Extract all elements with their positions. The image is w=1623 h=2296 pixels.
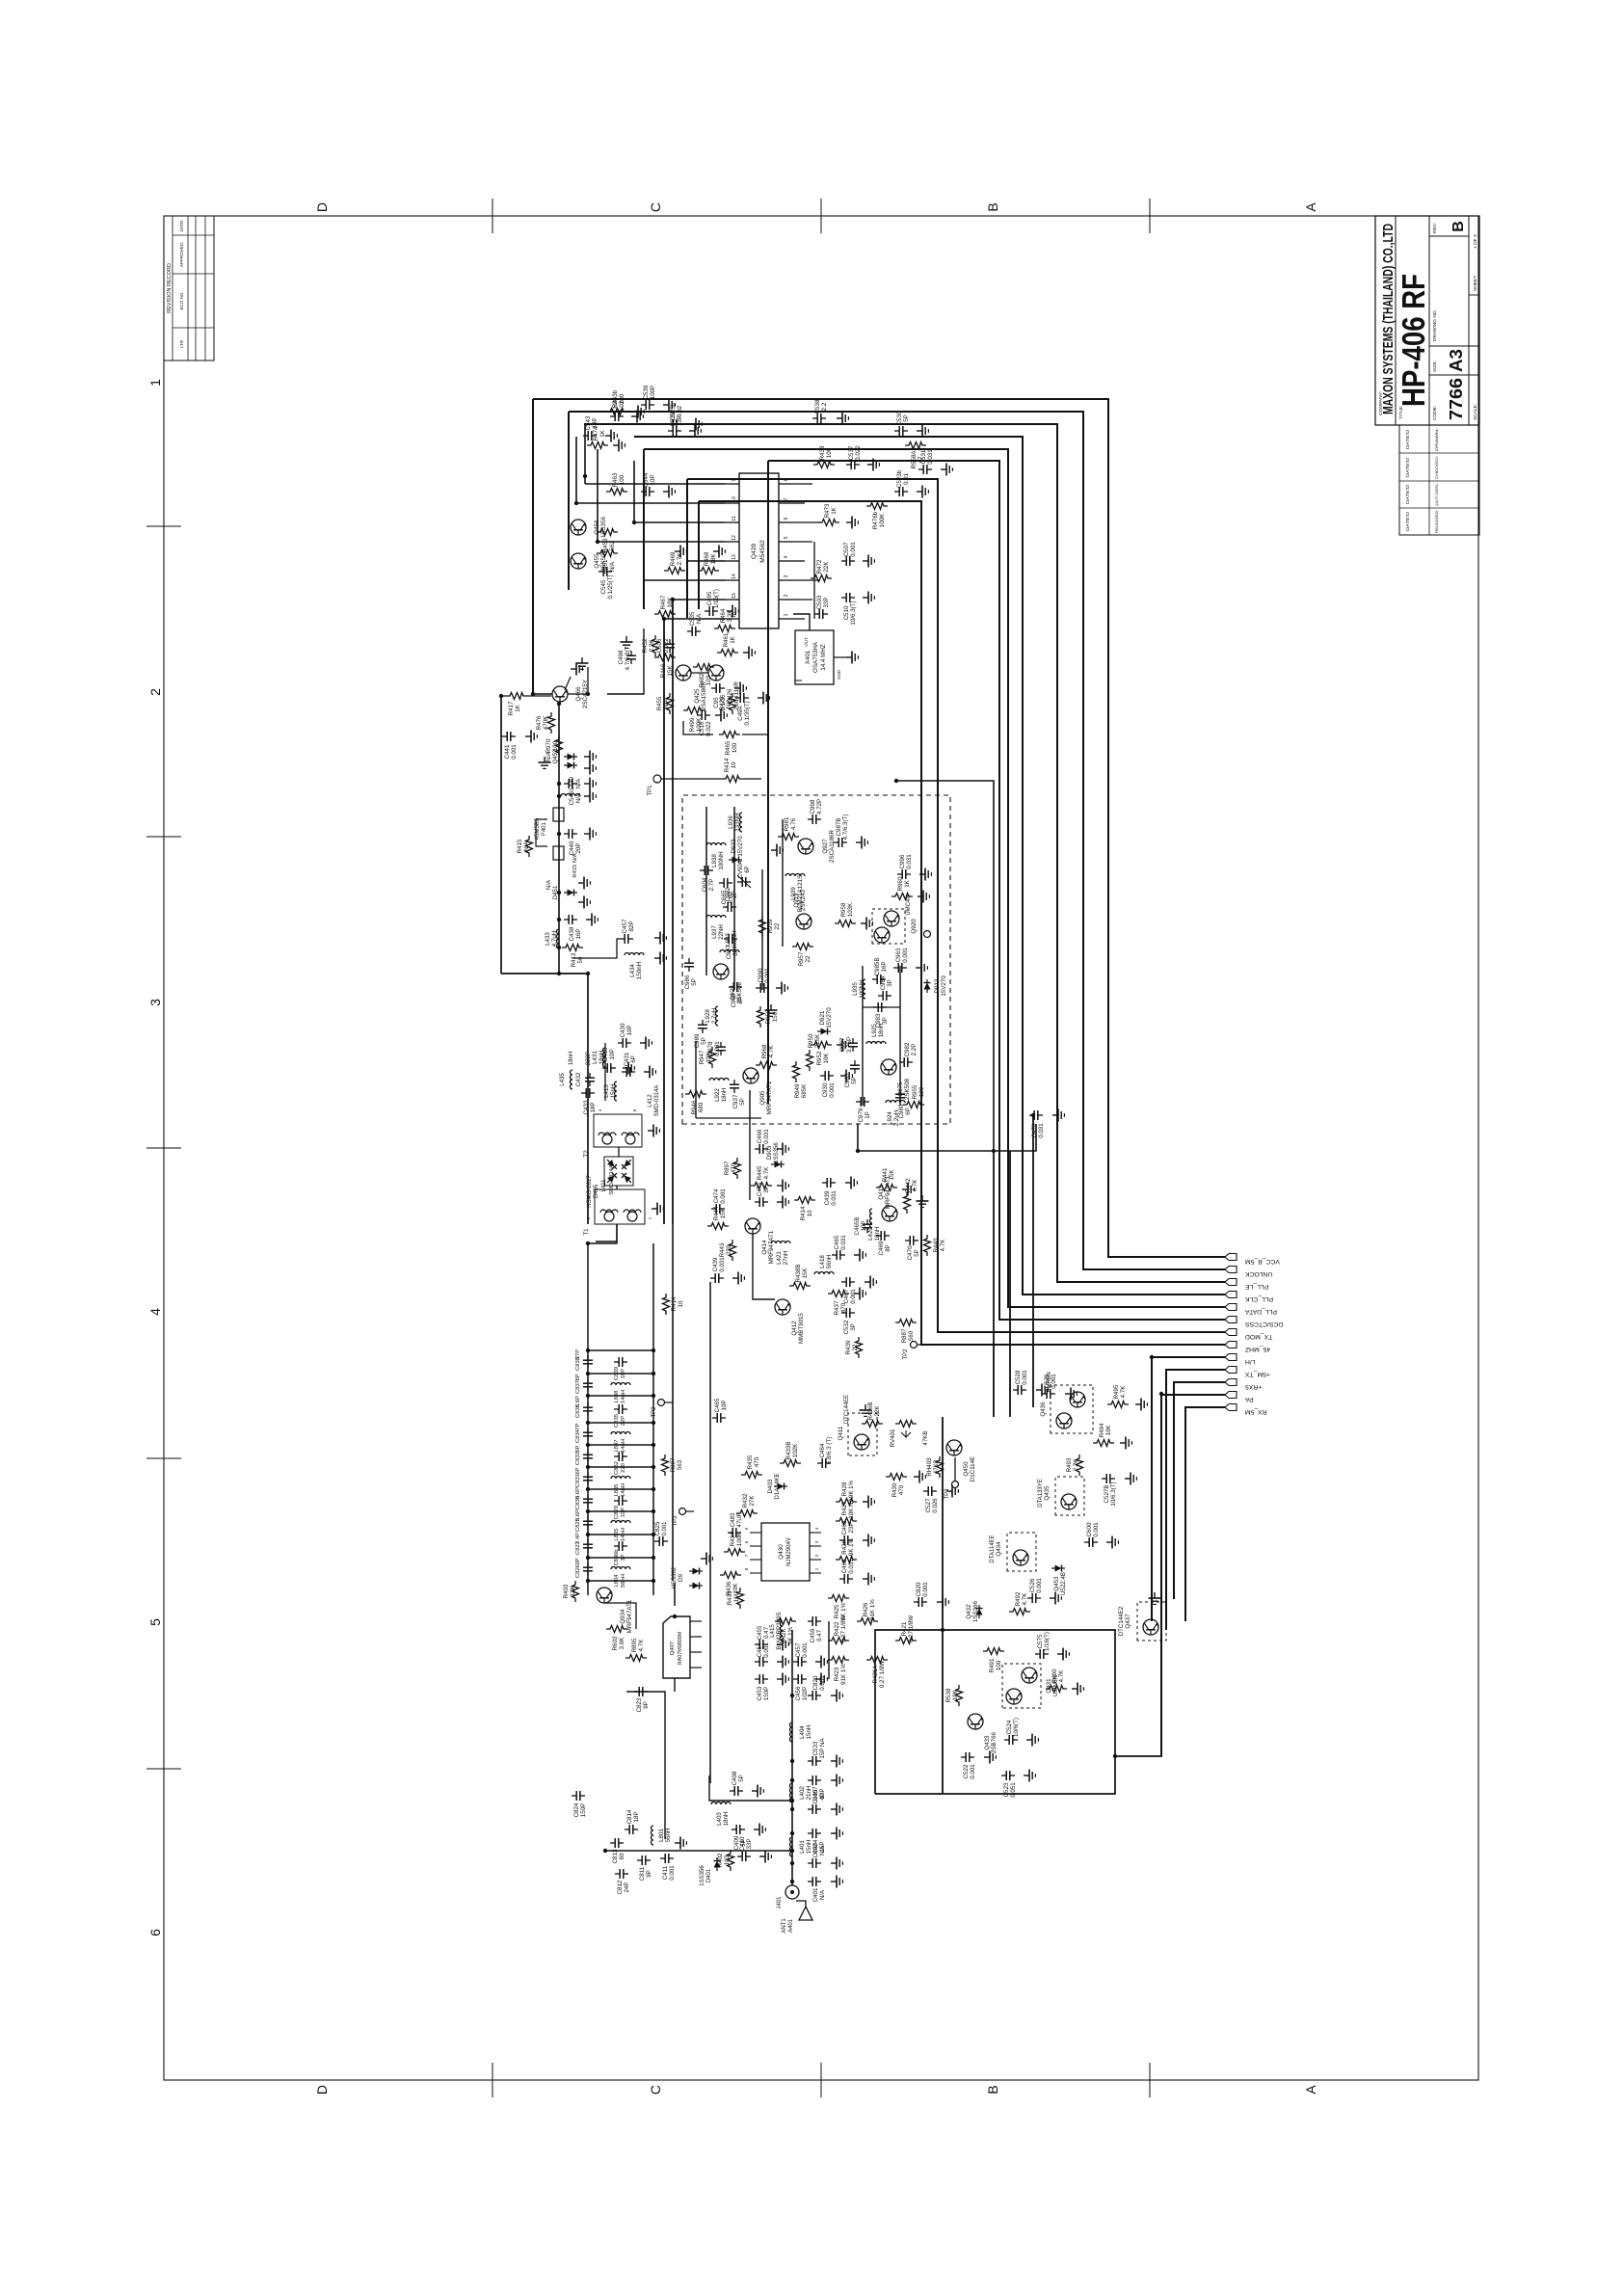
svg-text:C544: C544 bbox=[643, 472, 650, 487]
svg-text:L838: L838 bbox=[614, 1391, 620, 1403]
net flag PLL_DATA bbox=[1225, 1304, 1237, 1311]
capacitor C478 bbox=[1029, 1110, 1045, 1138]
connector J401 bbox=[777, 1885, 799, 1909]
svg-text:C404: C404 bbox=[812, 1839, 819, 1854]
op-amp Q430 NJM2904V bbox=[744, 1523, 821, 1581]
ground bbox=[732, 1272, 744, 1285]
ground bbox=[863, 592, 874, 604]
ground bbox=[984, 1751, 996, 1764]
svg-text:0.031: 0.031 bbox=[906, 854, 913, 869]
svg-text:27P: 27P bbox=[575, 1349, 581, 1359]
svg-text:C433: C433 bbox=[583, 1100, 590, 1114]
svg-text:R438: R438 bbox=[819, 445, 826, 460]
transformer T1 L411 SMD-0314A bbox=[584, 1164, 652, 1235]
svg-text:N/A: N/A bbox=[523, 841, 530, 851]
svg-text:47UF: 47UF bbox=[736, 1512, 743, 1527]
svg-text:R466: R466 bbox=[660, 663, 667, 678]
ground bbox=[586, 914, 598, 926]
diode Q432 bbox=[966, 1600, 983, 1622]
ground bbox=[765, 1004, 778, 1016]
capacitor C527 bbox=[923, 1486, 939, 1513]
wire q414 chain bbox=[753, 1234, 775, 1299]
ground bbox=[916, 962, 927, 974]
transistor Q425 bbox=[676, 665, 707, 710]
transistor bbox=[854, 1434, 869, 1450]
resistor R476b bbox=[866, 503, 888, 530]
ground bbox=[584, 828, 596, 841]
svg-text:470: 470 bbox=[754, 1456, 760, 1467]
resistor R495 bbox=[1107, 1384, 1129, 1407]
svg-text:R435: R435 bbox=[747, 1455, 754, 1469]
resistor R438B bbox=[789, 1265, 811, 1290]
svg-text:56nH: 56nH bbox=[621, 1574, 626, 1588]
IC U428 M54562 bbox=[725, 473, 793, 628]
inductor L420 bbox=[867, 1209, 881, 1241]
svg-text:C820: C820 bbox=[916, 1582, 922, 1596]
svg-text:14.4 MHZ: 14.4 MHZ bbox=[820, 644, 827, 670]
transistor Q456 bbox=[571, 516, 607, 538]
filter F401b bbox=[553, 846, 564, 860]
svg-text:C985: C985 bbox=[844, 1073, 851, 1087]
svg-text:5P: 5P bbox=[903, 414, 910, 422]
svg-text:10P: 10P bbox=[609, 1049, 616, 1059]
svg-text:R482: R482 bbox=[699, 673, 705, 687]
capacitor C402 bbox=[808, 1843, 826, 1868]
wire IC pin lead bbox=[687, 560, 725, 562]
resistor R469 bbox=[664, 551, 685, 574]
capacitor C835 bbox=[614, 1404, 627, 1414]
svg-text:DCS/CTCSS: DCS/CTCSS bbox=[1245, 1321, 1284, 1327]
svg-text:11: 11 bbox=[732, 516, 737, 521]
revision record table bbox=[164, 216, 214, 360]
resistor R425 bbox=[828, 1595, 849, 1621]
svg-text:56nH: 56nH bbox=[665, 1829, 672, 1843]
filter ladder rung wire bbox=[588, 1466, 653, 1468]
ground bbox=[752, 1785, 763, 1798]
ground bbox=[623, 1062, 634, 1075]
diode D923 bbox=[729, 836, 744, 864]
svg-text:Q452: Q452 bbox=[553, 749, 559, 763]
capacitor C462 bbox=[839, 1520, 855, 1545]
capacitor C401 bbox=[808, 1877, 826, 1902]
resistor R970 bbox=[545, 735, 563, 757]
svg-text:5P: 5P bbox=[851, 1077, 858, 1084]
svg-text:0.1/35: 0.1/35 bbox=[720, 694, 727, 711]
svg-text:C963: C963 bbox=[895, 948, 902, 962]
wire PA in bbox=[674, 1678, 676, 1692]
wire TP1 lead bbox=[661, 778, 722, 780]
capacitor C506 bbox=[656, 638, 675, 654]
svg-text:4: 4 bbox=[784, 555, 789, 558]
svg-text:33P: 33P bbox=[823, 597, 830, 607]
svg-text:15V270: 15V270 bbox=[826, 1007, 833, 1028]
svg-text:C820: C820 bbox=[812, 1675, 819, 1690]
wire IC pin lead bottom bbox=[793, 521, 820, 523]
wire bus net VCC_B_5M bbox=[533, 399, 1225, 1257]
svg-text:TP3: TP3 bbox=[945, 1488, 950, 1500]
svg-text:C503: C503 bbox=[816, 595, 823, 609]
ground bbox=[917, 1195, 929, 1207]
ground bbox=[863, 555, 874, 568]
svg-text:91K 1%: 91K 1% bbox=[840, 1664, 847, 1685]
svg-text:L418: L418 bbox=[819, 1255, 826, 1268]
capacitor C455 bbox=[755, 1625, 770, 1649]
svg-text:22K: 22K bbox=[823, 561, 830, 573]
svg-text:3P: 3P bbox=[737, 997, 744, 1004]
svg-text:L938: L938 bbox=[711, 854, 718, 868]
capacitor C982 bbox=[899, 1042, 918, 1067]
capacitor C465 bbox=[832, 1235, 847, 1260]
svg-text:C527: C527 bbox=[925, 1498, 932, 1512]
svg-text:R467: R467 bbox=[660, 595, 667, 609]
svg-text:2SK508: 2SK508 bbox=[904, 1078, 911, 1100]
filter ladder rung wire bbox=[588, 1580, 653, 1582]
svg-text:4: 4 bbox=[147, 1308, 163, 1316]
svg-text:SHEET:: SHEET: bbox=[1473, 275, 1478, 291]
svg-text:9K 1%: 9K 1% bbox=[848, 1480, 855, 1498]
svg-text:2.7P: 2.7P bbox=[708, 879, 715, 892]
wire Q466 emitter bbox=[568, 667, 588, 694]
svg-text:C833: C833 bbox=[575, 1452, 581, 1465]
transistor Q466 bbox=[552, 680, 589, 708]
svg-text:22P: 22P bbox=[621, 1416, 626, 1426]
svg-text:100K: 100K bbox=[696, 717, 703, 732]
svg-text:L937: L937 bbox=[711, 925, 718, 939]
svg-text:PLL_LE: PLL_LE bbox=[1245, 1283, 1269, 1290]
resistor R440 bbox=[924, 1235, 947, 1256]
svg-text:L435: L435 bbox=[560, 1073, 566, 1086]
resistor R463 bbox=[606, 472, 627, 494]
capacitor C523 bbox=[1001, 1771, 1017, 1798]
svg-text:18P: 18P bbox=[590, 1102, 597, 1112]
resistor R455 bbox=[656, 693, 674, 714]
trimmer CV904 6P bbox=[737, 860, 751, 888]
svg-text:0.031: 0.031 bbox=[719, 1257, 726, 1272]
svg-text:R464: R464 bbox=[720, 608, 727, 623]
svg-text:0.022: 0.022 bbox=[855, 445, 862, 461]
svg-text:R445: R445 bbox=[757, 1165, 763, 1180]
capacitor C963 bbox=[893, 948, 909, 973]
wire bus net PLL_LE bbox=[584, 424, 1225, 1282]
capacitor C524 bbox=[1004, 1718, 1020, 1745]
svg-text:R426: R426 bbox=[863, 1602, 869, 1616]
svg-text:R455: R455 bbox=[656, 696, 663, 710]
svg-text:R476: R476 bbox=[536, 715, 543, 730]
capacitor C531 bbox=[918, 449, 934, 474]
wire VCXO rail bbox=[607, 628, 644, 694]
svg-text:R493: R493 bbox=[1066, 1457, 1073, 1472]
ground bbox=[831, 1876, 842, 1888]
capacitor C544 bbox=[641, 472, 656, 496]
capacitor C836 bbox=[583, 1402, 593, 1416]
ground bbox=[831, 1755, 842, 1768]
svg-text:RH403: RH403 bbox=[926, 1457, 933, 1477]
ground bbox=[917, 486, 928, 498]
resistor R427 bbox=[836, 1497, 857, 1524]
svg-text:470: 470 bbox=[731, 1162, 737, 1173]
zone tick right border bbox=[1149, 199, 1151, 233]
net flag RX_5M bbox=[1225, 1404, 1237, 1411]
resistor R463b bbox=[606, 389, 627, 414]
svg-text:3P: 3P bbox=[850, 1323, 857, 1331]
svg-text:T1: T1 bbox=[584, 1228, 590, 1236]
svg-text:R957: R957 bbox=[798, 951, 805, 966]
svg-text:4.7K: 4.7K bbox=[1058, 1669, 1065, 1683]
VCO output port bbox=[924, 931, 931, 938]
ground bbox=[815, 1673, 827, 1686]
svg-text:OUT: OUT bbox=[804, 637, 809, 647]
resistor R435 bbox=[741, 1455, 762, 1478]
resistor R897 bbox=[724, 1158, 741, 1179]
resistor R955 bbox=[903, 1084, 925, 1108]
inductor L404 bbox=[790, 1722, 813, 1742]
svg-text:0.001: 0.001 bbox=[802, 1642, 809, 1658]
capacitor C979 bbox=[856, 1097, 871, 1122]
resistor R42K2 bbox=[775, 1618, 796, 1645]
resistor R42K bbox=[836, 1537, 857, 1562]
svg-text:4: 4 bbox=[598, 1108, 602, 1111]
diode pair Q452 N/A bbox=[546, 749, 577, 768]
svg-text:2: 2 bbox=[814, 1554, 819, 1557]
svg-text:2.2P: 2.2P bbox=[911, 1044, 918, 1056]
svg-text:C543: C543 bbox=[585, 415, 592, 430]
svg-text:NJM2904V: NJM2904V bbox=[786, 1537, 792, 1566]
svg-text:10K: 10K bbox=[1105, 1425, 1112, 1436]
ground bbox=[914, 1471, 925, 1483]
ground bbox=[777, 1143, 788, 1156]
svg-text:7: 7 bbox=[744, 1554, 749, 1557]
svg-text:C987B: C987B bbox=[836, 818, 842, 837]
resistor R452 bbox=[642, 635, 659, 656]
svg-text:20P: 20P bbox=[575, 842, 582, 853]
svg-text:4.7K: 4.7K bbox=[940, 1239, 946, 1252]
svg-text:102P: 102P bbox=[802, 1687, 809, 1700]
wire LH run bbox=[1151, 1357, 1153, 1621]
svg-text:Q927: Q927 bbox=[822, 839, 829, 854]
svg-text:Q450: Q450 bbox=[963, 1461, 970, 1477]
wire TP3 bbox=[954, 1457, 956, 1481]
svg-text:CHECKED:: CHECKED: bbox=[1435, 456, 1439, 479]
svg-text:SMD-0314A: SMD-0314A bbox=[654, 1085, 660, 1117]
wire net stub PA bbox=[1161, 1395, 1225, 1756]
svg-text:0.1/35(T): 0.1/35(T) bbox=[744, 701, 751, 725]
svg-text:N/A: N/A bbox=[663, 698, 670, 708]
svg-text:R414: R414 bbox=[724, 758, 731, 772]
svg-text:C401: C401 bbox=[812, 1887, 819, 1902]
svg-text:2SB766: 2SB766 bbox=[991, 1731, 998, 1753]
VCO section dashed box bbox=[682, 795, 950, 1124]
svg-text:L415: L415 bbox=[769, 1624, 776, 1638]
svg-text:DTA114EE: DTA114EE bbox=[990, 1535, 996, 1562]
wire vco to buffer bbox=[858, 1124, 994, 1151]
net flag TX_MOD bbox=[1225, 1329, 1237, 1336]
ground bbox=[1106, 1536, 1118, 1549]
X401 OSA753HA 14.4MHz module bbox=[795, 630, 846, 684]
svg-text:B: B bbox=[1450, 221, 1467, 232]
transistor Q934 bbox=[597, 1588, 633, 1633]
svg-text:9K 1%: 9K 1% bbox=[840, 1602, 847, 1620]
capacitor C459 bbox=[808, 1616, 823, 1642]
wire driver link bbox=[626, 1692, 665, 1839]
svg-text:103K: 103K bbox=[847, 902, 854, 917]
ground bbox=[675, 546, 686, 558]
svg-text:15V270: 15V270 bbox=[737, 836, 744, 857]
inductor L838 bbox=[611, 1383, 630, 1386]
svg-text:18nH: 18nH bbox=[599, 1051, 605, 1065]
capacitor C411 bbox=[660, 1854, 676, 1881]
svg-text:A: A bbox=[1303, 2085, 1318, 2095]
svg-text:3P: 3P bbox=[887, 979, 893, 987]
svg-text:Q437: Q437 bbox=[1125, 1614, 1131, 1629]
wire Q466 top bbox=[501, 695, 506, 697]
capacitor C475 bbox=[755, 1182, 770, 1207]
inductor L804 bbox=[611, 1567, 630, 1570]
resistor R499 bbox=[683, 707, 705, 733]
svg-text:Q455: Q455 bbox=[594, 553, 600, 569]
wire bus feeder 45_MHZ bbox=[698, 501, 700, 609]
ground bbox=[1052, 1109, 1064, 1122]
inductor L801 bbox=[652, 1826, 673, 1845]
svg-text:10K: 10K bbox=[732, 1583, 739, 1594]
svg-text:Q436: Q436 bbox=[1040, 1402, 1047, 1417]
svg-text:L433: L433 bbox=[545, 932, 551, 946]
svg-text:C839: C839 bbox=[614, 1367, 620, 1380]
svg-text:R432: R432 bbox=[742, 1493, 749, 1508]
svg-text:C831: C831 bbox=[575, 1474, 581, 1487]
svg-text:R946: R946 bbox=[691, 1100, 698, 1114]
wire TP2 bbox=[918, 1344, 940, 1346]
svg-text:1K: 1K bbox=[831, 506, 838, 514]
svg-text:3P: 3P bbox=[621, 1554, 626, 1561]
svg-text:Q905: Q905 bbox=[759, 1090, 766, 1106]
ground bbox=[571, 663, 582, 676]
svg-text:F401: F401 bbox=[542, 822, 547, 836]
svg-text:0.001: 0.001 bbox=[764, 968, 771, 983]
svg-text:R897: R897 bbox=[724, 1161, 731, 1175]
svg-text:10: 10 bbox=[731, 761, 737, 768]
resistor R414 bbox=[794, 1197, 815, 1221]
svg-text:PA: PA bbox=[1245, 1396, 1254, 1402]
svg-text:15nH: 15nH bbox=[806, 1840, 812, 1855]
svg-text:60: 60 bbox=[619, 1853, 625, 1859]
svg-text:470K: 470K bbox=[543, 715, 549, 730]
svg-text:RELEASED:: RELEASED: bbox=[1435, 510, 1439, 533]
capacitor C538 bbox=[812, 399, 828, 423]
ground bbox=[846, 652, 858, 664]
svg-text:DTC144EE: DTC144EE bbox=[844, 1395, 850, 1424]
transistor bbox=[1061, 1494, 1077, 1509]
svg-text:6.8/6.3 (T): 6.8/6.3 (T) bbox=[826, 1437, 833, 1465]
ground bbox=[605, 430, 617, 442]
svg-text:APPROVED:: APPROVED: bbox=[179, 242, 184, 267]
ground bbox=[631, 411, 643, 423]
ground bbox=[621, 636, 633, 648]
svg-text:14nH: 14nH bbox=[621, 1483, 626, 1497]
svg-text:U522.4B: U522.4B bbox=[1060, 1572, 1067, 1595]
transistor Q435 DTA133YE dashed bbox=[1055, 1477, 1084, 1515]
transistor array Q920 UMC4N dashed outline bbox=[872, 909, 905, 944]
svg-text:9K 1%: 9K 1% bbox=[787, 1626, 794, 1644]
wire IC pin lead bottom bbox=[793, 579, 820, 581]
net flag DCS/CTCSS bbox=[1225, 1317, 1237, 1323]
svg-text:2SCA1186R: 2SCA1186R bbox=[829, 830, 836, 863]
svg-text:4.7K: 4.7K bbox=[768, 1045, 775, 1058]
svg-text:DRAWING NO.: DRAWING NO. bbox=[1432, 309, 1438, 341]
svg-text:1 OF 3: 1 OF 3 bbox=[1473, 234, 1478, 249]
ground bbox=[777, 1180, 788, 1192]
svg-text:R981: R981 bbox=[784, 816, 790, 831]
net flag 45_MHZ bbox=[1225, 1342, 1237, 1348]
svg-text:L922: L922 bbox=[714, 1088, 721, 1102]
inductor L431 bbox=[592, 1048, 605, 1067]
wire bus net PLL_CLK bbox=[634, 437, 1225, 1295]
svg-text:UNLOCK: UNLOCK bbox=[1245, 1270, 1273, 1277]
svg-text:7P: 7P bbox=[575, 1423, 581, 1429]
wire y698 long bbox=[672, 1224, 674, 1581]
filter ladder rung wire bbox=[588, 1395, 653, 1397]
svg-text:C465: C465 bbox=[834, 1235, 840, 1249]
svg-text:47KB: 47KB bbox=[922, 1430, 929, 1445]
capacitor C483 bbox=[728, 1512, 743, 1537]
svg-text:102K: 102K bbox=[792, 1443, 799, 1457]
svg-text:2.7uH: 2.7uH bbox=[711, 1008, 718, 1025]
ground bbox=[654, 952, 666, 965]
svg-text:C986: C986 bbox=[684, 974, 691, 989]
inductor L922 bbox=[709, 1079, 729, 1103]
svg-text:100: 100 bbox=[996, 1660, 1002, 1670]
svg-text:5: 5 bbox=[744, 1527, 749, 1530]
svg-text:N/A: N/A bbox=[575, 778, 582, 788]
inductor L435 18nH bbox=[571, 1070, 573, 1089]
svg-text:220: 220 bbox=[621, 1463, 626, 1473]
svg-text:C829: C829 bbox=[614, 1506, 620, 1519]
inductor L935 bbox=[852, 979, 865, 999]
wire Q425 base feed bbox=[683, 721, 713, 734]
svg-text:R952: R952 bbox=[816, 1051, 823, 1065]
svg-text:3P: 3P bbox=[575, 1558, 581, 1564]
svg-text:C430: C430 bbox=[620, 1023, 626, 1037]
svg-text:RX_5M: RX_5M bbox=[1245, 1408, 1267, 1415]
svg-text:22: 22 bbox=[774, 922, 781, 929]
wire mid vertical A bbox=[896, 781, 994, 1151]
svg-text:TITLE:: TITLE: bbox=[1398, 406, 1404, 419]
svg-text:100NH: 100NH bbox=[718, 851, 725, 869]
resistor R464 bbox=[714, 608, 735, 631]
wire IC pin lead bottom bbox=[793, 599, 812, 601]
svg-text:3.75P: 3.75P bbox=[846, 1037, 853, 1053]
transistor bbox=[1022, 1668, 1037, 1683]
ground bbox=[840, 1070, 852, 1082]
capacitor C522 bbox=[961, 1752, 976, 1779]
svg-text:10/6.3(T): 10/6.3(T) bbox=[850, 601, 857, 625]
svg-text:C538: C538 bbox=[814, 399, 821, 414]
capacitor C440 bbox=[564, 829, 582, 855]
resistor R490 bbox=[1046, 1669, 1067, 1692]
svg-text:OSA753HA: OSA753HA bbox=[812, 641, 819, 673]
resistor R414 bbox=[663, 1294, 685, 1315]
svg-text:C411: C411 bbox=[662, 1865, 669, 1880]
svg-text:GND: GND bbox=[837, 669, 841, 680]
svg-text:C996: C996 bbox=[899, 854, 906, 868]
svg-text:1M: 1M bbox=[733, 1594, 740, 1603]
inductor L837 bbox=[611, 1432, 630, 1435]
wire q905 down bbox=[696, 1117, 761, 1119]
inductor L937 bbox=[706, 916, 726, 940]
capacitor C470 bbox=[905, 1236, 920, 1260]
svg-text:R42K: R42K bbox=[781, 1627, 787, 1642]
ground bbox=[675, 1837, 686, 1850]
svg-text:10/6(T): 10/6(T) bbox=[1013, 1718, 1020, 1737]
